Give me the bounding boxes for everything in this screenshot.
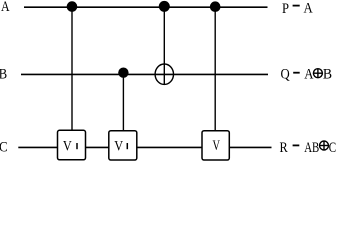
gate U2: controlled V-dagger box [109, 131, 137, 160]
svg-text:V: V [114, 139, 123, 155]
wire: vertical control line from A down to gate U1 [71, 7, 73, 132]
equals bar of Q label [293, 72, 300, 74]
equals bar of R label [293, 145, 300, 147]
xor circled-plus symbol in R label [319, 141, 328, 150]
svg-text:C: C [329, 140, 336, 156]
svg-text:B: B [0, 67, 7, 83]
svg-text:P: P [282, 1, 289, 17]
svg-text:C: C [0, 139, 8, 155]
svg-text:A: A [1, 0, 10, 15]
svg-text:V: V [63, 139, 72, 155]
wire: vertical control line from B down to gate U2 [122, 73, 124, 132]
svg-text:V: V [213, 138, 221, 154]
svg-text:A: A [304, 1, 313, 17]
equals bar of P label [293, 5, 300, 7]
gate U3: controlled V box [202, 131, 229, 160]
wire: vertical control line from A down to gate U3 [214, 7, 216, 132]
svg-text:AB: AB [304, 140, 319, 156]
xor circled-plus symbol in Q label [313, 69, 322, 78]
dagger mark of gate U1 [76, 143, 78, 149]
control dot on wire A for CNOT [159, 1, 170, 12]
dagger mark of gate U2 [126, 143, 128, 149]
control dot on wire A for gate U3 [210, 1, 221, 12]
svg-text:B: B [323, 67, 332, 83]
CNOT target circled-plus on wire B [155, 64, 173, 84]
gate U1: controlled V-dagger box [58, 130, 86, 160]
wire B (horizontal line from input B to output Q) [21, 73, 268, 75]
svg-text:Q: Q [281, 67, 290, 83]
svg-text:A: A [304, 67, 313, 83]
wire A (horizontal line from input A to output P) [24, 6, 268, 8]
control dot on wire B for gate U2 [118, 68, 128, 78]
svg-text:R: R [280, 140, 288, 156]
wire C (horizontal line from input C to output R) [18, 146, 271, 148]
wire: vertical control line from A down to CNOT target on B [163, 7, 165, 85]
control dot on wire A for gate U1 [67, 1, 78, 12]
